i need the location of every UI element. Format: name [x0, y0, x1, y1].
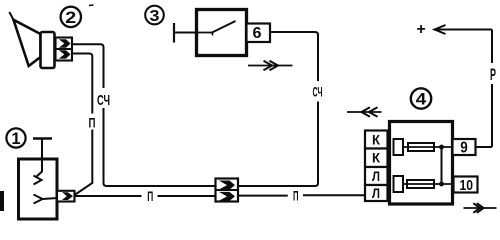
svg-text:6: 6 — [253, 25, 262, 42]
terminal Л (1) — [365, 167, 388, 185]
fuse block 4 box — [390, 122, 453, 205]
svg-text:П: П — [147, 188, 153, 204]
label 2 (circled) — [61, 7, 81, 27]
svg-text:10: 10 — [459, 177, 473, 194]
relay 1 box — [19, 159, 58, 219]
svg-text:Л: Л — [372, 186, 380, 201]
label П (lower right wire) — [293, 188, 299, 204]
svg-text:Р: Р — [490, 66, 496, 84]
horn 2 cone — [9, 12, 40, 66]
continuation arrow bottom right — [464, 203, 497, 213]
contact pad lower — [394, 176, 404, 192]
svg-text:+: + — [416, 21, 425, 38]
plus terminal — [416, 21, 425, 38]
label 3 (circled) — [145, 6, 164, 25]
switch 3 terminal bar — [174, 23, 197, 43]
terminal К (1) — [365, 131, 388, 149]
svg-text:3: 3 — [150, 8, 160, 25]
terminal Л (2) — [365, 185, 388, 201]
terminal 6 — [247, 24, 271, 43]
scan blob left edge — [0, 191, 4, 211]
noise dash — [89, 4, 94, 7]
label 1 (circled) — [6, 128, 25, 148]
label СЧ (left) — [97, 92, 110, 109]
bus wire inside block 4 — [441, 147, 443, 184]
wire СЧ horn to bottom (left vertical) — [72, 44, 216, 186]
label Р — [490, 66, 496, 84]
wire П lower right — [238, 194, 366, 196]
svg-text:К: К — [372, 151, 381, 166]
relay 1 contacts — [34, 159, 58, 204]
label П (vertical wire) — [89, 114, 96, 130]
terminal К (2) — [365, 149, 388, 168]
terminal 10 — [454, 177, 478, 194]
horn 2 body — [41, 32, 55, 68]
arrow to plus — [435, 25, 493, 34]
svg-text:4: 4 — [416, 91, 427, 109]
wire СЧ right vertical — [238, 32, 318, 186]
svg-text:Л: Л — [372, 169, 380, 184]
switch 3 box — [197, 10, 247, 56]
svg-text:СЧ: СЧ — [313, 83, 323, 99]
switch 3 blade — [197, 21, 236, 36]
continuation arrow below switch 3 — [248, 61, 293, 70]
svg-text:П: П — [89, 114, 96, 130]
fuse F1 — [403, 143, 453, 151]
fuse F2 — [403, 180, 453, 188]
connector X3 mid-wire — [216, 179, 239, 202]
label 4 (circled) — [411, 88, 431, 108]
svg-text:П: П — [293, 188, 299, 204]
label П (lower left wire) — [147, 188, 153, 204]
contact pad upper — [394, 139, 404, 155]
junction node upper — [439, 145, 444, 150]
connector X1 at relay — [57, 191, 75, 202]
wire Р vertical — [476, 30, 492, 148]
svg-text:1: 1 — [11, 130, 20, 148]
svg-text:СЧ: СЧ — [97, 92, 110, 109]
continuation arrow left of block 4 — [347, 107, 382, 116]
wire П horn to relay (vertical) — [72, 54, 92, 196]
wire П lower left — [75, 195, 216, 197]
junction node lower — [439, 182, 444, 187]
connector X2 at horn — [56, 38, 73, 61]
relay 1 terminal — [33, 139, 52, 160]
svg-text:2: 2 — [65, 8, 76, 27]
svg-text:9: 9 — [460, 140, 468, 157]
terminal 9 — [453, 139, 476, 157]
svg-text:К: К — [372, 132, 381, 147]
label СЧ (right) — [313, 83, 323, 99]
